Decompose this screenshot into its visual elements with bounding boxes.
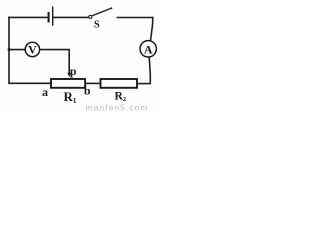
wire voltmeter right (40, 49, 69, 51)
svg-text:A: A (144, 43, 153, 57)
svg-text:R1: R1 (64, 89, 77, 105)
svg-text:b: b (84, 84, 91, 98)
wire voltmeter left (9, 49, 25, 51)
wire battery to switch (53, 16, 89, 18)
svg-text:V: V (28, 43, 37, 57)
svg-text:p: p (70, 64, 77, 78)
battery B1 short thick plate (48, 12, 50, 23)
switch S pivot circle (89, 15, 92, 18)
switch S blade tip (111, 7, 113, 9)
battery B1 long thin plate (52, 7, 54, 26)
resistor R1 box (51, 79, 85, 88)
wire wiper vertical (68, 49, 70, 74)
wiper arrow head (67, 73, 71, 78)
switch S blade (92, 8, 112, 16)
wire switch to top-right corner (117, 17, 153, 19)
wire bottom-left horizontal (8, 82, 51, 84)
junction node on left wire (8, 48, 11, 51)
svg-text:R2: R2 (115, 90, 127, 103)
wire top-left horizontal (8, 16, 47, 18)
resistor R2 box (101, 79, 138, 88)
svg-text:a: a (42, 85, 48, 99)
ammeter A circle (140, 41, 156, 57)
wire between R1 and R2 (85, 82, 101, 84)
wire right vertical upper (151, 17, 153, 41)
wire right vertical lower (149, 57, 150, 85)
svg-text:S: S (94, 20, 100, 31)
svg-text:manfen5.com: manfen5.com (86, 102, 149, 112)
wire left vertical (8, 17, 10, 84)
voltmeter V circle (25, 42, 39, 56)
wire bottom-right horizontal (137, 83, 150, 85)
